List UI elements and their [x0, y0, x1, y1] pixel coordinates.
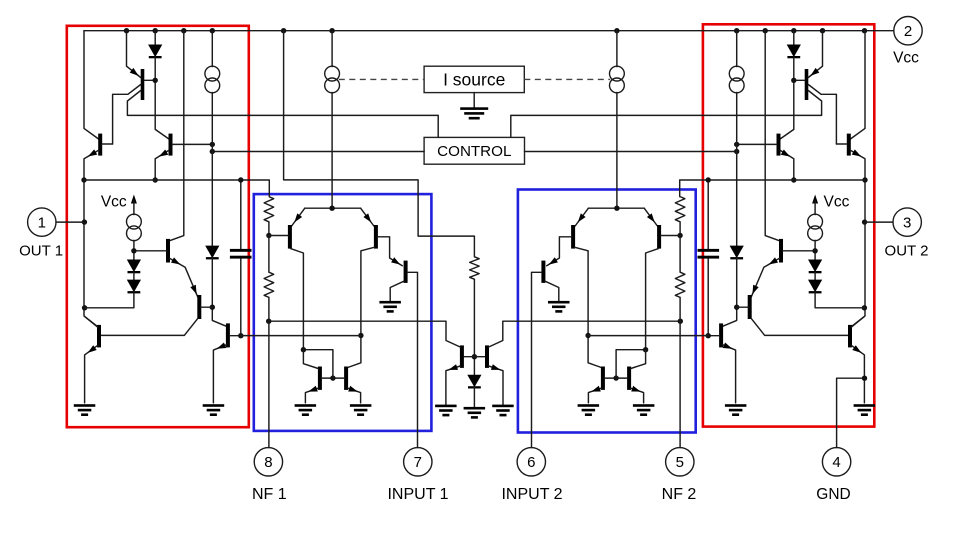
current source I3 (ch2) [808, 214, 823, 241]
transistor Q4 emitter arrow 2 [190, 285, 196, 295]
diode D2 (ch2) [808, 260, 822, 274]
transistor Q8 base wire (ch2) [547, 237, 572, 266]
node Q5b base junction (ch2) [734, 305, 739, 310]
transistor Q10b base bar (ch2) [601, 367, 605, 390]
ground (Q12) [492, 405, 514, 417]
node Q1 base junction [153, 78, 158, 83]
rail junction x=822.5 [820, 28, 825, 33]
dashed link to right current source [524, 78, 610, 80]
transistor Q8 emitter arrow (ch2) [578, 213, 586, 222]
transistor Q4 emitter wire (ch2) [751, 258, 779, 296]
node Q3 emitter/output junction [153, 177, 158, 182]
transistor Q12 collector wire [489, 321, 681, 347]
transistor Q5 collector wire [85, 317, 98, 328]
capacitor C1 (ch2) [698, 249, 720, 259]
transistor Q1 emitter wire [127, 31, 141, 78]
wire capacitor to Q6 base node (ch2) [707, 259, 709, 336]
wire NF node to pin [268, 321, 270, 447]
transistor Q6 base bar (ch2) [719, 323, 723, 347]
wire rail to Q4 collector (ch2) [765, 31, 779, 241]
rail junction x=736.7 [734, 28, 739, 33]
transistor Q2 base bar [98, 134, 102, 156]
transistor Q10b emitter wire [348, 388, 361, 403]
wire bias resistor to diode node [473, 279, 475, 375]
transistor Q2 base wire (ch2) [836, 143, 847, 145]
wire rail to current source I1 (ch2) [616, 31, 618, 67]
NF 1 label [252, 486, 287, 503]
node Q3 emitter/output junction (ch2) [791, 177, 796, 182]
ground (Q11) [435, 405, 457, 417]
current source I3 [126, 214, 141, 241]
capacitor C1 [230, 249, 252, 259]
transistor Q9 base wire (ch2) [532, 272, 542, 447]
ground (Q6) [203, 404, 225, 416]
diode D1 (ch2) [787, 45, 801, 59]
ground (Q6) (ch2) [725, 404, 747, 416]
node Q3 base/current-source junction [210, 142, 215, 147]
transistor Q10a base bar [318, 367, 322, 390]
transistor Q10b emitter arrow (ch2) [591, 386, 601, 392]
wire R1 to base node (ch2) [679, 222, 681, 236]
rail junction x=212.3 [210, 28, 215, 33]
node output/feedback junction (ch2) [862, 177, 867, 182]
transistor Q3 emitter arrow [159, 150, 168, 157]
transistor Q6 base wire (ch2) [708, 335, 719, 337]
resistor R2 (ch2) [675, 272, 685, 297]
wire rail to diode D1 (ch2) [793, 31, 795, 45]
control line left [212, 151, 424, 153]
transistor Q1 emitter arrow [130, 68, 139, 76]
svg-text:Vcc: Vcc [824, 194, 850, 211]
svg-text:1: 1 [38, 215, 46, 232]
pin 5 (NF 2) [666, 448, 694, 476]
node output/diode junction (ch2) [862, 305, 867, 310]
diode D4 (ch2) [730, 246, 744, 260]
wire current source to diode D4 (ch2) [736, 93, 738, 246]
transistor Q4 emitter arrow [171, 257, 180, 264]
transistor Q5b base bar (ch2) [748, 295, 752, 319]
rail junction x=616.9 [614, 28, 619, 33]
wire D1 to Q3 collector [155, 57, 169, 139]
mirror diode tie wire [303, 350, 333, 378]
ground (Q5) [74, 404, 96, 416]
transistor Q2 base wire [102, 143, 113, 145]
pin 3 (OUT 2) [893, 208, 921, 236]
wire D3 to output node [85, 292, 134, 308]
transistor Q2 emitter arrow (ch2) [852, 149, 861, 156]
transistor Q3 base wire (ch2) [737, 143, 777, 145]
transistor Q8 collector wire [348, 247, 375, 367]
transistor Q5 emitter wire (ch2) [852, 346, 865, 403]
node diff base junction [266, 233, 271, 238]
wire rail to Q4 collector [170, 31, 184, 241]
ground (Q10a) [295, 404, 317, 416]
wire current source to diff pair tail (ch2) [616, 93, 618, 209]
drive wire mirror to capacitor node [241, 335, 361, 337]
wire current source to diodes (ch2) [814, 240, 816, 259]
transistor Q9 base bar [404, 261, 408, 283]
wire QC base tie [464, 356, 486, 358]
wire capacitor to Q6 base node [240, 259, 242, 336]
transistor Q1 emitter arrow (ch2) [810, 68, 819, 76]
node Q3 base/current-source junction (ch2) [734, 142, 739, 147]
current source I1 [325, 66, 340, 93]
transistor Q9 base wire [407, 272, 417, 447]
wire rail to diode D1 [154, 31, 156, 45]
transistor Q7 emitter wire (ch2) [644, 208, 657, 226]
current source I2 (ch2) [729, 66, 744, 93]
transistor Q7 base bar (ch2) [657, 225, 661, 249]
Vcc label (bias) (ch2) [824, 194, 850, 211]
transistor Q5b collector wire (ch2) [751, 319, 848, 336]
rail junction x=283.6 [281, 28, 286, 33]
transistor Q8 collector wire (ch2) [575, 247, 602, 367]
transistor Q4 emitter wire [170, 258, 198, 296]
transistor Q5 collector wire (ch2) [852, 317, 865, 328]
wire current source to diode D4 [211, 93, 213, 246]
transistor Q1 base bar (ch2) [805, 69, 809, 100]
I source box [424, 66, 524, 92]
node Q6 base junction (ch2) [706, 333, 711, 338]
wire rail to current source I1 [331, 31, 333, 67]
OUT 1 label [19, 242, 63, 259]
transistor Q1 base wire (ch2) [794, 79, 805, 81]
transistor Q10a emitter arrow (ch2) [631, 386, 641, 392]
CONTROL box [424, 137, 524, 164]
transistor Q11 emitter wire [446, 366, 460, 405]
wire rail to current source I2 (ch2) [736, 31, 738, 67]
transistor Q8 emitter wire (ch2) [575, 208, 588, 226]
transistor Q5b base wire [201, 306, 212, 308]
node diff base junction (ch2) [677, 233, 682, 238]
svg-text:4: 4 [832, 454, 840, 471]
control line right junction [734, 149, 739, 154]
transistor Q2 base bar (ch2) [847, 134, 851, 156]
I source ground [460, 107, 488, 119]
transistor Q1 emitter wire (ch2) [808, 31, 822, 78]
svg-text:6: 6 [527, 454, 535, 471]
transistor Q10a collector wire (ch2) [631, 350, 646, 369]
diode D3 (ch2) [808, 280, 822, 294]
pin 1 (OUT 1) [28, 208, 56, 236]
wire D3 to output node (ch2) [815, 292, 864, 308]
transistor Q7 emitter wire [292, 208, 305, 226]
rail junction x=126.5 [124, 28, 129, 33]
OUT 2 label [885, 242, 929, 259]
pin 8 (NF 1) [254, 448, 282, 476]
svg-text:Vcc: Vcc [101, 194, 127, 211]
node mirror base junction [330, 375, 335, 380]
node Q8 collector junction (ch2) [585, 333, 590, 338]
pin 7 (INPUT 1) [404, 448, 432, 476]
transistor Q12 emitter wire [489, 366, 503, 405]
transistor Q1 collector-b wire (to CONTROL) (ch2) [511, 91, 822, 138]
rail junction x=765.2 [763, 28, 768, 33]
pin 3 wire [865, 221, 893, 223]
node output pin junction (ch2) [862, 219, 867, 224]
transistor Q10b emitter wire (ch2) [588, 388, 601, 403]
Vcc pin label [893, 50, 919, 67]
transistor Q9 emitter arrow (ch2) [549, 257, 558, 264]
transistor Q4 base wire (ch2) [783, 250, 815, 252]
pin 4 (GND) [822, 448, 850, 476]
transistor Q3 emitter arrow (ch2) [781, 150, 790, 157]
wire NF node to pin (ch2) [679, 321, 681, 447]
resistor R1 (ch2) [675, 197, 685, 222]
svg-text:7: 7 [414, 454, 422, 471]
wire diode to ground [473, 387, 475, 407]
mirror base tie wire [322, 377, 345, 379]
diode D4 [205, 246, 219, 260]
svg-text:8: 8 [264, 454, 272, 471]
resistor R2 [264, 272, 274, 297]
transistor Q11 emitter arrow [449, 364, 459, 370]
svg-text:5: 5 [676, 454, 684, 471]
ground (Q10a) (ch2) [633, 404, 655, 416]
output node column (ch2) [852, 180, 865, 327]
control line right [525, 151, 737, 153]
Vcc label (bias) [101, 194, 127, 211]
wire D4 to Q6 collector [212, 258, 226, 326]
I source label [443, 70, 505, 90]
wire D2 to D3 (ch2) [814, 272, 816, 280]
transistor Q1 collector-a wire [113, 85, 141, 145]
transistor Q9 base bar (ch2) [541, 261, 545, 283]
wire feedback to capacitor C1 [240, 180, 242, 249]
wire rail to Q2 collector (ch2) [850, 31, 865, 139]
transistor Q3 base bar (ch2) [777, 134, 781, 156]
transistor Q4 base bar (ch2) [779, 239, 783, 263]
transistor Q7 collector wire [291, 249, 304, 350]
node mirror base junction (ch2) [613, 375, 618, 380]
transistor Q10b base bar [344, 367, 348, 390]
Vcc arrow [131, 195, 137, 215]
channel-1 block frame (red) [67, 26, 249, 427]
transistor Q7 emitter arrow (ch2) [647, 213, 655, 222]
transistor Q3 base wire [172, 143, 212, 145]
node Q4 base junction [131, 248, 136, 253]
rail junction x=183.8 [181, 28, 186, 33]
wire base node to R2 [268, 236, 270, 273]
input stage 1 frame (blue) [254, 194, 432, 431]
I source ground stem [473, 93, 475, 108]
diff pair tail wire [305, 207, 361, 209]
transistor Q7 emitter arrow [294, 213, 302, 222]
feedback wire to NF resistor [84, 180, 269, 197]
svg-text:INPUT 1: INPUT 1 [387, 486, 448, 503]
transistor Q5b base wire (ch2) [737, 306, 748, 308]
rail junction x=155.2 [153, 28, 158, 33]
GND label [816, 486, 850, 503]
ground (Q9) [379, 301, 401, 313]
transistor Q2 emitter wire [84, 150, 99, 180]
transistor Q4 base wire [134, 250, 166, 252]
ground (Q10b) [350, 404, 372, 416]
resistor R5 (bias) [470, 257, 480, 279]
transistor Q5b collector wire [101, 319, 198, 336]
node feedback/capacitor junction (ch2) [706, 177, 711, 182]
node bias/diode junction [472, 354, 477, 359]
current source I2 [205, 66, 220, 93]
transistor Q8 emitter arrow [363, 213, 371, 222]
transistor Q2 emitter wire (ch2) [850, 150, 865, 180]
transistor Q1 collector-a wire (ch2) [808, 85, 836, 145]
Vcc rail [84, 30, 894, 32]
transistor Q4 emitter arrow (ch2) [769, 257, 778, 264]
bias wire rail to center resistor [284, 31, 475, 257]
node output/feedback junction [81, 177, 86, 182]
node NF1/collector junction [266, 319, 271, 324]
transistor Q6 emitter arrow [217, 343, 227, 349]
transistor Q3 emitter wire (ch2) [780, 150, 794, 180]
transistor Q6 emitter wire (ch2) [723, 345, 736, 403]
node output/diode junction [82, 305, 87, 310]
dashed link to left current source [339, 78, 424, 80]
transistor Q10a collector wire [303, 350, 318, 369]
transistor Q8 base wire [378, 237, 403, 266]
svg-text:GND: GND [816, 486, 850, 503]
wire current source to diff pair tail [331, 93, 333, 209]
node NF2/collector junction [678, 319, 683, 324]
NF 2 label [662, 486, 697, 503]
ground (Q9) (ch2) [548, 301, 570, 313]
transistor Q7 base wire (ch2) [661, 235, 680, 237]
wire D2 to D3 [133, 272, 135, 280]
svg-text:I source: I source [443, 70, 505, 90]
transistor Q1 collector-b wire (to CONTROL) [127, 91, 438, 138]
current source I1 (ch2) [610, 66, 625, 93]
node output pin junction [82, 219, 87, 224]
pin 1 wire [56, 221, 84, 223]
transistor Q7 base wire [269, 235, 288, 237]
GND pin wire [837, 378, 865, 447]
channel-2 block frame (red) [703, 24, 874, 426]
diode D2 [127, 260, 141, 274]
transistor Q7 collector wire (ch2) [646, 249, 659, 350]
Vcc arrow (ch2) [812, 195, 818, 215]
node GND junction [862, 376, 867, 381]
transistor Q6 base wire [230, 335, 241, 337]
node Q5b base junction [210, 305, 215, 310]
output node column [84, 180, 97, 327]
transistor Q8 base bar (ch2) [571, 225, 575, 249]
diode D1 [148, 45, 162, 59]
transistor Q10a base bar (ch2) [627, 367, 631, 390]
transistor Q3 base bar [169, 134, 173, 156]
ground (center) [464, 407, 486, 419]
wire rail to Q2 collector [84, 31, 99, 139]
wire D1 to Q3 collector (ch2) [780, 57, 794, 139]
transistor Q2 emitter arrow [88, 149, 97, 156]
transistor Q9 collector wire (ch2) [545, 281, 559, 301]
INPUT 1 label [387, 486, 448, 503]
node tail junction [329, 206, 334, 211]
transistor Q9 emitter arrow [391, 257, 400, 264]
control line left junction [210, 149, 215, 154]
rail junction x=332.1 [329, 28, 334, 33]
node feedback/capacitor junction [238, 177, 243, 182]
node Q8 collector junction [358, 333, 363, 338]
feedback wire to NF resistor (ch2) [680, 180, 865, 197]
svg-text:INPUT 2: INPUT 2 [501, 486, 562, 503]
rail junction x=864.5 [862, 28, 867, 33]
pin 6 (INPUT 2) [517, 448, 545, 476]
svg-text:2: 2 [904, 23, 912, 40]
transistor Q10b emitter arrow [348, 386, 358, 392]
mirror diode tie wire (ch2) [616, 350, 646, 378]
transistor Q4 base bar [166, 239, 170, 263]
drive wire mirror to capacitor node (ch2) [588, 335, 708, 337]
transistor Q11 collector wire [269, 321, 461, 347]
transistor Q11 base bar [460, 345, 464, 368]
wire R2 to NF node [268, 297, 270, 321]
node Q4 base junction (ch2) [812, 248, 817, 253]
wire feedback to capacitor C1 (ch2) [707, 180, 709, 249]
transistor Q5 emitter wire [85, 346, 98, 403]
transistor Q10a emitter wire [305, 388, 318, 403]
svg-text:OUT 1: OUT 1 [19, 242, 63, 259]
svg-text:3: 3 [903, 215, 911, 232]
ground (Q10b) (ch2) [578, 404, 600, 416]
transistor Q10a emitter wire (ch2) [631, 388, 644, 403]
transistor Q7 base bar [288, 225, 292, 249]
svg-text:NF 2: NF 2 [662, 486, 697, 503]
wire current source to diodes [133, 240, 135, 259]
wire R1 to base node [268, 222, 270, 236]
diff pair tail wire (ch2) [588, 207, 644, 209]
transistor Q1 base wire [144, 79, 155, 81]
diode D3 [127, 280, 141, 294]
transistor Q5 emitter arrow [88, 345, 97, 353]
node Q10a collector junction [301, 347, 306, 352]
transistor Q12 emitter arrow [491, 364, 501, 370]
node Q6 base junction [238, 333, 243, 338]
resistor R1 [264, 197, 274, 222]
transistor Q3 emitter wire [155, 150, 169, 180]
svg-text:OUT 2: OUT 2 [885, 242, 929, 259]
transistor Q5 emitter arrow (ch2) [852, 345, 861, 353]
wire rail to current source I2 [211, 31, 213, 67]
pin 2 (Vcc) [894, 17, 922, 45]
transistor Q5 base bar (ch2) [848, 325, 852, 348]
mirror base tie wire (ch2) [605, 377, 628, 379]
svg-text:NF 1: NF 1 [252, 486, 287, 503]
transistor Q1 base bar [141, 69, 145, 100]
node tail junction (ch2) [614, 206, 619, 211]
transistor Q8 base bar [374, 225, 378, 249]
wire R2 to NF node (ch2) [679, 297, 681, 321]
CONTROL label [437, 143, 511, 160]
input stage 2 frame (blue) [518, 190, 696, 433]
transistor Q5b base bar [197, 295, 201, 319]
ground (Q5) (ch2) [854, 404, 876, 416]
diode D7 (center) [467, 375, 481, 389]
transistor Q10a emitter arrow [308, 386, 318, 392]
wire D4 to Q6 collector (ch2) [723, 258, 737, 326]
transistor Q6 base bar [226, 323, 230, 347]
svg-text:Vcc: Vcc [893, 50, 919, 67]
transistor Q8 emitter wire [361, 208, 374, 226]
transistor Q5 base bar [97, 325, 101, 348]
transistor Q9 collector wire [390, 281, 404, 301]
transistor Q12 base bar [485, 345, 489, 368]
transistor Q6 emitter wire [213, 345, 226, 403]
node Q10a collector junction (ch2) [643, 347, 648, 352]
INPUT 2 label [501, 486, 562, 503]
node Q1 base junction (ch2) [791, 78, 796, 83]
transistor Q6 emitter arrow (ch2) [723, 343, 733, 349]
wire base node to R2 (ch2) [679, 236, 681, 273]
